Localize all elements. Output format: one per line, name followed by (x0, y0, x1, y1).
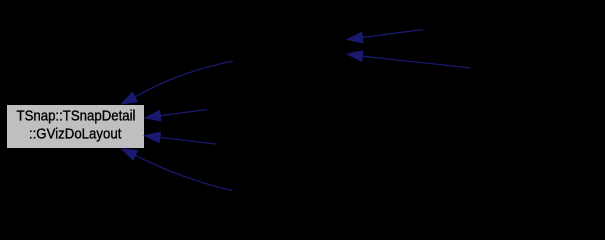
svg-text:::GVizDoLayout: ::GVizDoLayout (29, 125, 122, 142)
svg-text:TSnap::TSnapDetail: TSnap::TSnapDetail (17, 107, 136, 124)
